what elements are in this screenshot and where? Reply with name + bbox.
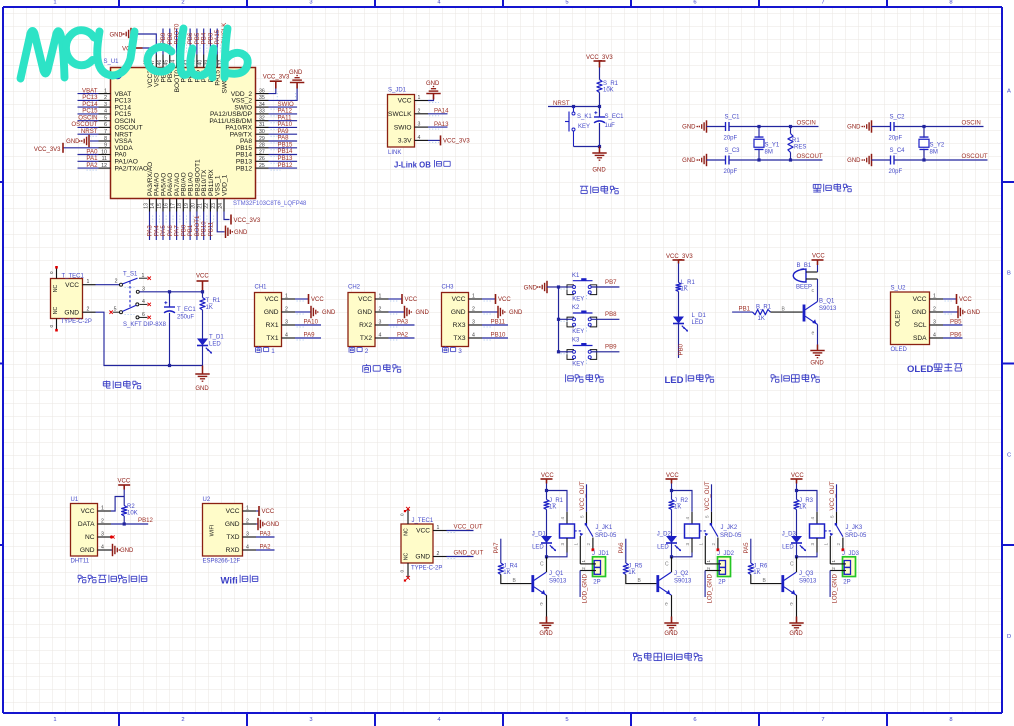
- svg-text:J_R2: J_R2: [674, 498, 689, 504]
- power VCC at CH1: [295, 298, 308, 300]
- svg-text:GND: GND: [664, 631, 678, 637]
- svg-text:S9013: S9013: [799, 579, 817, 585]
- terminal J_JD2 pin2 wire: [705, 570, 721, 572]
- capacitor S_C4 20pF: [890, 156, 892, 165]
- svg-text:CH2: CH2: [348, 285, 361, 291]
- resistor R2 10K: [122, 506, 127, 517]
- svg-text:VCC: VCC: [405, 297, 418, 303]
- svg-text:7: 7: [104, 129, 107, 135]
- svg-text:VCC_OUT: VCC_OUT: [579, 481, 586, 510]
- svg-text:3.3V: 3.3V: [398, 138, 412, 145]
- svg-text:3: 3: [685, 543, 690, 546]
- wire coil bottom relay-2: [672, 553, 693, 557]
- wire vcc to resistor: [599, 68, 601, 80]
- svg-text:OLED: OLED: [891, 347, 908, 353]
- label serial-3: [444, 346, 446, 347]
- svg-text:2: 2: [472, 307, 475, 313]
- svg-text:0: 0: [49, 325, 54, 328]
- svg-text:T_R1: T_R1: [206, 298, 221, 304]
- ground at CH1: [295, 311, 311, 313]
- svg-text:7: 7: [821, 717, 824, 723]
- svg-text:VCC: VCC: [452, 296, 466, 303]
- svg-text:PB12: PB12: [236, 165, 252, 172]
- svg-text:4: 4: [246, 545, 249, 551]
- svg-text:LOD_GND: LOD_GND: [707, 573, 714, 603]
- svg-text:RX1: RX1: [266, 322, 279, 329]
- svg-text:GND: GND: [266, 522, 280, 528]
- svg-text:PA13: PA13: [434, 121, 449, 128]
- U1 right net label wires: [269, 101, 298, 170]
- svg-text:2P: 2P: [843, 580, 850, 586]
- ground at CH3: [482, 311, 498, 313]
- svg-text:J_JK2: J_JK2: [721, 525, 738, 531]
- svg-text:B_R1: B_R1: [756, 304, 772, 310]
- svg-text:2: 2: [581, 567, 586, 570]
- ground at S_JD1 pin 1: [428, 97, 434, 101]
- svg-text:LOD_GND: LOD_GND: [582, 573, 589, 603]
- svg-text:VCC: VCC: [791, 473, 804, 479]
- svg-text:8: 8: [949, 0, 952, 5]
- svg-text:1: 1: [933, 294, 936, 300]
- svg-text:2: 2: [933, 307, 936, 313]
- svg-text:NC: NC: [53, 285, 59, 293]
- svg-text:3: 3: [309, 0, 312, 5]
- svg-text:VCC: VCC: [262, 509, 275, 515]
- ground reset: [599, 147, 601, 154]
- svg-text:34: 34: [259, 102, 265, 108]
- svg-text:J_Q2: J_Q2: [674, 571, 689, 577]
- svg-text:VCC: VCC: [541, 473, 554, 479]
- svg-text:1: 1: [581, 560, 586, 563]
- wire resistor to NRST node: [599, 93, 601, 107]
- svg-text:31: 31: [259, 122, 265, 128]
- svg-text:1: 1: [824, 543, 829, 546]
- svg-text:R1: R1: [792, 138, 800, 144]
- LED J_D1: [541, 536, 552, 543]
- wire to coil top relay-2: [672, 491, 693, 512]
- svg-text:PA7: PA7: [493, 542, 500, 554]
- resistor J_R2 1K: [669, 500, 674, 510]
- svg-text:33: 33: [259, 109, 265, 115]
- svg-text:8: 8: [104, 136, 107, 142]
- svg-text:VCC_3V3: VCC_3V3: [263, 74, 290, 80]
- svg-text:J_JK3: J_JK3: [846, 525, 863, 531]
- wire key K1 left: [559, 286, 573, 288]
- emitter wire relay-2: [671, 595, 673, 616]
- svg-text:1: 1: [104, 88, 107, 94]
- svg-text:GND: GND: [120, 548, 134, 554]
- svg-text:2: 2: [437, 551, 440, 557]
- svg-text:GND: GND: [451, 309, 466, 316]
- svg-text:12: 12: [101, 163, 107, 169]
- svg-text:PA2: PA2: [260, 544, 272, 551]
- net PB12 wire at DHT11 DATA: [111, 523, 148, 525]
- svg-text:2: 2: [706, 567, 711, 570]
- collector wire relay-2: [671, 557, 673, 572]
- svg-text:GND: GND: [682, 158, 696, 164]
- svg-text:1K: 1K: [799, 505, 806, 511]
- net VCC_OUT wire relay-3: [836, 484, 838, 512]
- svg-text:GND: GND: [357, 309, 372, 316]
- svg-text:4: 4: [810, 517, 815, 520]
- svg-text:1K: 1K: [674, 505, 681, 511]
- svg-text:S_C1: S_C1: [725, 115, 741, 121]
- label serial-1: [257, 346, 259, 347]
- svg-text:S9013: S9013: [549, 579, 567, 585]
- svg-text:20pF: 20pF: [724, 169, 738, 175]
- relay J_JK1 blade: [586, 524, 593, 537]
- svg-text:U2: U2: [203, 497, 211, 503]
- svg-text:4: 4: [379, 333, 382, 339]
- svg-text:J_JK1: J_JK1: [596, 525, 613, 531]
- svg-text:D: D: [1007, 634, 1011, 640]
- net PA2 wire at CH2: [389, 337, 415, 339]
- wire L_R1 to L_D1: [678, 292, 680, 317]
- svg-text:2: 2: [285, 307, 288, 313]
- svg-text:1: 1: [418, 95, 421, 101]
- key S_K1 KEY: [573, 107, 575, 112]
- svg-text:10K: 10K: [127, 511, 138, 517]
- svg-text:1: 1: [285, 294, 288, 300]
- svg-text:25: 25: [259, 163, 265, 169]
- svg-text:2: 2: [101, 519, 104, 525]
- power VCC_3V3 at U1 pin 9 VDDA: [64, 147, 99, 149]
- relay contact NO relay-2: [717, 538, 719, 550]
- svg-text:GND: GND: [64, 310, 79, 317]
- svg-text:VCC_OUT: VCC_OUT: [704, 481, 711, 510]
- ground at U1 pin 23 VSS_1: [217, 212, 224, 232]
- svg-text:VCC_3V3: VCC_3V3: [666, 254, 693, 260]
- svg-text:40: 40: [198, 60, 204, 66]
- svg-text:K1: K1: [572, 273, 580, 279]
- svg-text:GND: GND: [415, 554, 430, 561]
- svg-text:GND: GND: [234, 230, 248, 236]
- ground at U1 pin 35: [269, 86, 298, 101]
- svg-text:S_U1: S_U1: [104, 59, 120, 65]
- power VCC_3V3 at U1 pin 24 VDD_1: [224, 212, 230, 220]
- svg-text:KEY: KEY: [572, 361, 584, 367]
- relay J_JK1 common pin: [586, 512, 588, 523]
- power VCC at CH2: [389, 298, 402, 300]
- svg-text:LED: LED: [665, 375, 684, 386]
- svg-text:1: 1: [53, 717, 56, 723]
- svg-text:5: 5: [580, 515, 585, 518]
- key rail wire: [558, 287, 560, 352]
- svg-text:S_R1: S_R1: [603, 81, 619, 87]
- svg-text:23: 23: [211, 203, 217, 209]
- connector S_JD1 J-Link: [388, 95, 415, 148]
- svg-text:1: 1: [53, 0, 56, 5]
- net PB8 wire: [591, 318, 619, 320]
- svg-text:PA9: PA9: [304, 332, 316, 339]
- svg-text:PA2/TX/AO: PA2/TX/AO: [115, 165, 149, 172]
- capacitor S_C3 20pF: [725, 156, 727, 165]
- svg-text:S_Y1: S_Y1: [765, 143, 780, 149]
- svg-text:4: 4: [933, 333, 936, 339]
- terminal J_JD3 pin2 wire: [830, 570, 846, 572]
- no-connect at DHT11 pin3: [110, 536, 113, 539]
- svg-text:2: 2: [711, 543, 716, 546]
- svg-text:3: 3: [933, 320, 936, 326]
- connector T_TEC1 TYPE-C: [51, 279, 83, 319]
- resistor J_R4 1K: [498, 563, 503, 575]
- svg-text:21: 21: [198, 203, 204, 209]
- connector S_U2 OLED: [891, 292, 930, 345]
- relay contact NO relay-3: [842, 538, 844, 550]
- svg-text:3: 3: [472, 320, 475, 326]
- svg-text:KEY: KEY: [572, 297, 584, 303]
- svg-text:PB11: PB11: [491, 319, 506, 326]
- svg-text:3: 3: [379, 320, 382, 326]
- wire J_R6 to base: [751, 575, 782, 584]
- svg-text:GND: GND: [109, 33, 123, 39]
- relay J_JK2 common pin: [711, 512, 713, 523]
- svg-text:5: 5: [104, 116, 107, 122]
- net PB5 wire at OLED: [943, 324, 963, 326]
- svg-text:2: 2: [181, 717, 184, 723]
- svg-text:SRD-05: SRD-05: [845, 533, 867, 539]
- svg-text:LINK: LINK: [388, 150, 401, 156]
- wire TEC1 vcc to switch: [96, 284, 120, 286]
- svg-text:1: 1: [574, 543, 579, 546]
- svg-text:2P: 2P: [718, 580, 725, 586]
- key K2: [567, 317, 574, 327]
- svg-text:VCC: VCC: [416, 528, 430, 535]
- svg-text:22: 22: [204, 203, 210, 209]
- svg-text:0: 0: [49, 271, 54, 274]
- svg-text:17: 17: [170, 203, 176, 209]
- svg-text:K3: K3: [572, 338, 580, 344]
- svg-text:1: 1: [246, 506, 249, 512]
- svg-text:S_Y2: S_Y2: [930, 143, 945, 149]
- resistor L_R1 1K: [676, 283, 681, 292]
- svg-text:PB6: PB6: [950, 332, 962, 339]
- svg-text:SCL: SCL: [914, 322, 927, 329]
- net LOD_GND wire relay-3: [829, 571, 831, 598]
- capacitor S_EC1 1uF: [599, 107, 601, 117]
- svg-text:1: 1: [437, 525, 440, 531]
- svg-text:6: 6: [693, 0, 696, 5]
- svg-text:GND: GND: [789, 631, 803, 637]
- svg-text:8M: 8M: [765, 149, 773, 155]
- svg-text:PA5: PA5: [743, 542, 750, 554]
- net VCC_OUT wire relay-1: [586, 484, 588, 512]
- net PB1 base wire: [732, 311, 752, 313]
- svg-text:S_JD1: S_JD1: [388, 88, 407, 94]
- svg-text:VCC_3V3: VCC_3V3: [443, 139, 470, 145]
- resistor J_R1 1K: [544, 500, 549, 510]
- svg-text:1K: 1K: [503, 570, 510, 576]
- connector U2 ESP8266 wifi: [203, 504, 243, 557]
- svg-text:OSCIN: OSCIN: [962, 120, 981, 127]
- svg-text:DHT11: DHT11: [71, 559, 90, 565]
- svg-text:VCC: VCC: [81, 508, 95, 515]
- svg-text:VCC_3V3: VCC_3V3: [34, 147, 61, 153]
- svg-text:TXD: TXD: [226, 534, 239, 541]
- connector CH3: [442, 293, 469, 347]
- LED J_D2: [666, 536, 677, 543]
- svg-text:OSCOUT: OSCOUT: [797, 153, 823, 160]
- title relay control circuit: [634, 652, 637, 654]
- svg-text:VCC: VCC: [498, 297, 511, 303]
- capacitor T_EC1 250uF: [169, 292, 171, 307]
- net PB7 wire: [591, 286, 619, 288]
- svg-text:GND: GND: [524, 286, 538, 292]
- svg-text:4: 4: [560, 517, 565, 520]
- svg-text:26: 26: [259, 156, 265, 162]
- net LOD_GND wire relay-2: [704, 571, 706, 598]
- svg-text:5: 5: [705, 515, 710, 518]
- U1 bottom net label wires: [147, 212, 215, 241]
- svg-text:NC: NC: [85, 534, 95, 541]
- svg-text:RX2: RX2: [359, 322, 372, 329]
- net PA14 wire at S_JD1 pin2: [428, 113, 448, 115]
- LED J_D3: [791, 536, 802, 543]
- svg-text:TX2: TX2: [360, 335, 372, 342]
- svg-text:GND: GND: [66, 139, 80, 145]
- power VCC_3V3 at S_JD1 pin4: [428, 139, 440, 141]
- net PB11 wire at CH3: [482, 324, 508, 326]
- svg-text:VCC: VCC: [196, 274, 209, 280]
- svg-text:10K: 10K: [603, 88, 614, 94]
- power VCC at U1 VCC3 top pin: [143, 48, 150, 55]
- svg-text:S_EC1: S_EC1: [605, 114, 625, 120]
- svg-text:28: 28: [259, 143, 265, 149]
- svg-text:8M: 8M: [930, 149, 938, 155]
- svg-text:PB9: PB9: [605, 344, 617, 351]
- svg-text:GND: GND: [289, 70, 303, 76]
- wire buzzer to collector: [817, 279, 819, 302]
- U1 top net label wires: [160, 23, 228, 55]
- capacitor S_C1 20pF: [725, 122, 727, 131]
- resistor J_R3 1K: [794, 500, 799, 510]
- svg-text:GND: GND: [912, 309, 927, 316]
- svg-text:11: 11: [102, 156, 107, 162]
- svg-text:T_S1: T_S1: [123, 272, 138, 278]
- svg-text:16: 16: [164, 203, 170, 209]
- relay contact NC relay-1: [579, 536, 581, 564]
- wire vcc junction relay-1: [546, 484, 548, 500]
- svg-text:GND: GND: [810, 361, 824, 367]
- svg-text:GND: GND: [426, 81, 440, 87]
- svg-text:R2: R2: [127, 504, 135, 510]
- svg-text:VCC: VCC: [398, 98, 412, 105]
- svg-text:OLED: OLED: [896, 310, 902, 327]
- svg-text:PB12: PB12: [278, 162, 294, 169]
- net GND_OUT wire: [447, 556, 474, 558]
- emitter wire relay-1: [546, 595, 548, 616]
- svg-text:KEY: KEY: [578, 124, 590, 130]
- wire key to gnd node: [574, 146, 600, 148]
- svg-text:J_R5: J_R5: [628, 563, 643, 569]
- svg-text:S_U2: S_U2: [891, 286, 907, 292]
- U1 left net label wires: [71, 87, 98, 170]
- connector CH1: [255, 293, 282, 347]
- wire switch out to node: [140, 291, 203, 293]
- wire key K2 left: [559, 318, 573, 320]
- svg-text:1: 1: [271, 348, 275, 355]
- svg-text:1: 1: [472, 294, 475, 300]
- wire B_R1 to base: [771, 311, 803, 313]
- MCUclub logo: [21, 29, 248, 79]
- svg-text:20pF: 20pF: [889, 136, 903, 142]
- wire top row: [729, 126, 819, 128]
- op-amp U1 STM32 MCU body: [111, 68, 256, 199]
- svg-text:K2: K2: [572, 305, 580, 311]
- svg-text:TYPE-C-2P: TYPE-C-2P: [411, 566, 442, 572]
- wire J_R3 to LED: [796, 510, 798, 537]
- svg-text:GND_OUT: GND_OUT: [454, 550, 484, 557]
- terminal J_JD1 pin2 wire: [580, 570, 596, 572]
- crystal S_Y2 8M: [922, 125, 925, 128]
- svg-text:PA2: PA2: [86, 162, 98, 169]
- svg-text:3: 3: [246, 532, 249, 538]
- svg-text:1: 1: [379, 294, 382, 300]
- svg-text:2: 2: [181, 0, 184, 5]
- svg-text:3: 3: [309, 717, 312, 723]
- svg-text:C: C: [790, 562, 794, 568]
- svg-text:VCC: VCC: [666, 473, 679, 479]
- resistor S_R1 10K: [597, 80, 602, 93]
- svg-text:PB5: PB5: [950, 319, 962, 326]
- svg-text:SWIO: SWIO: [394, 124, 412, 131]
- svg-text:U1: U1: [71, 497, 79, 503]
- svg-text:PB1: PB1: [739, 305, 751, 312]
- ground relay-3: [796, 617, 798, 624]
- svg-text:1: 1: [831, 560, 836, 563]
- wire buzzer vcc: [817, 265, 819, 272]
- svg-text:CH3: CH3: [442, 285, 455, 291]
- svg-text:LED: LED: [657, 545, 669, 551]
- svg-text:BEEP: BEEP: [796, 285, 812, 291]
- svg-text:C: C: [1007, 453, 1011, 459]
- net PA3 wire at ESP8266: [256, 536, 275, 538]
- svg-text:LED: LED: [532, 545, 544, 551]
- svg-text:1K: 1K: [628, 570, 635, 576]
- title reset circuit: [580, 185, 588, 187]
- net PA6 base wire relay-2: [625, 539, 627, 563]
- svg-text:DATA: DATA: [78, 521, 95, 528]
- svg-text:SRD-05: SRD-05: [595, 533, 617, 539]
- svg-text:5: 5: [565, 717, 568, 723]
- svg-text:PA14: PA14: [434, 108, 449, 115]
- svg-text:6: 6: [104, 122, 107, 128]
- collector wire relay-1: [546, 557, 548, 572]
- net VCC_OUT wire: [447, 530, 474, 532]
- resistor R1 RES feedback: [789, 125, 792, 128]
- svg-text:RXD: RXD: [226, 547, 240, 554]
- svg-text:2: 2: [586, 543, 591, 546]
- svg-text:J_Q3: J_Q3: [799, 571, 814, 577]
- title DHT11 module: [78, 574, 81, 576]
- svg-text:3: 3: [101, 532, 104, 538]
- label serial-2: [351, 346, 353, 347]
- buzzer B_B1 BEEP: [793, 269, 806, 282]
- svg-text:4: 4: [142, 299, 145, 305]
- svg-text:GND: GND: [847, 158, 861, 164]
- ground at CH2: [389, 311, 405, 313]
- svg-text:CH1: CH1: [255, 285, 268, 291]
- title crystal circuit: [813, 183, 821, 185]
- svg-text:250uF: 250uF: [177, 315, 194, 321]
- relay J_JK3 blade: [836, 524, 843, 537]
- relay J_JK2 SRD-05 coil: [691, 512, 693, 524]
- svg-text:J_TEC1: J_TEC1: [412, 518, 434, 524]
- svg-text:SDA: SDA: [913, 335, 927, 342]
- svg-text:3: 3: [104, 102, 107, 108]
- svg-text:4: 4: [285, 333, 288, 339]
- wire vcc junction relay-3: [796, 484, 798, 500]
